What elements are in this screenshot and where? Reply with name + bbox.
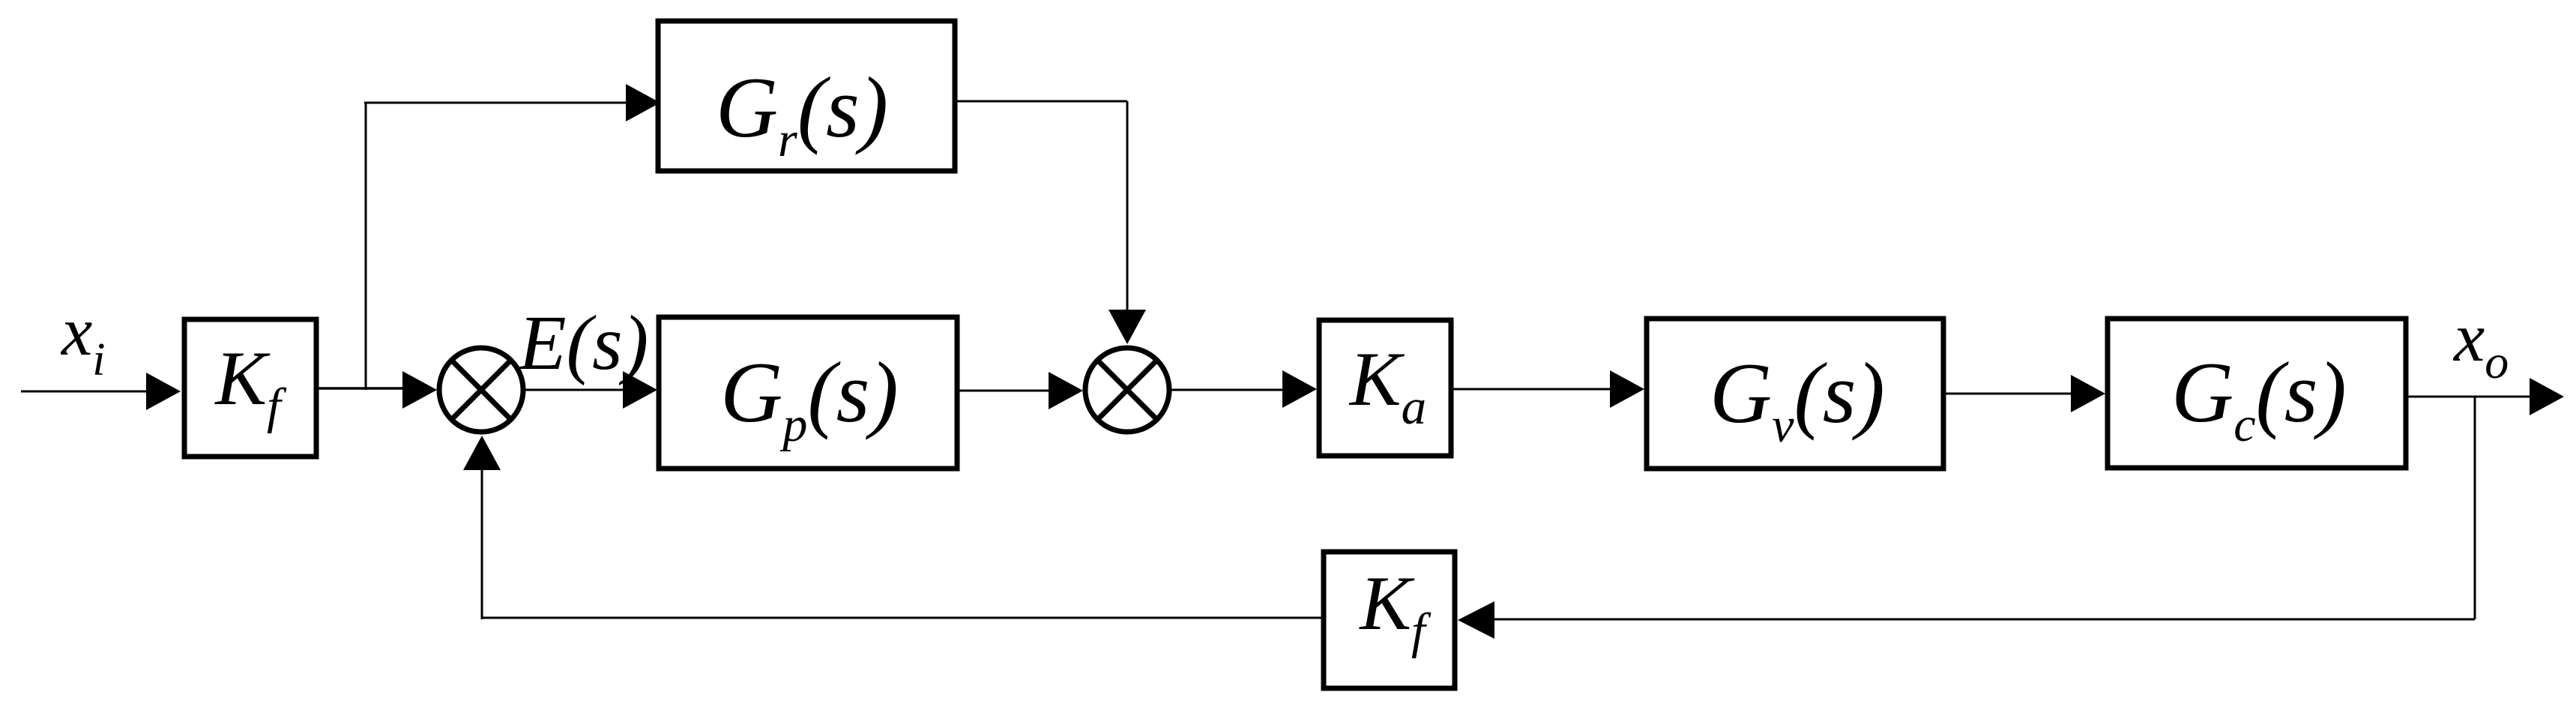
arrowhead into G_r	[626, 84, 660, 121]
arrowhead up into S1 bottom	[463, 436, 501, 470]
block G_r	[658, 21, 955, 171]
wire: K_f output to summing junction S1	[316, 387, 405, 390]
wire: G_v to G_c	[1943, 393, 2073, 395]
svg-text:Gv(s): Gv(s)	[1710, 346, 1885, 453]
block K_f (bottom)	[1324, 552, 1455, 688]
wire: S2 to K_a	[1169, 389, 1285, 391]
wire: branch vertical up to G_r	[365, 103, 367, 390]
wire: G_c output to x_o	[2406, 396, 2533, 398]
wire: S1 to G_p	[523, 389, 625, 391]
arrowhead into S2 from left	[1049, 372, 1083, 409]
arrowhead into G_p	[623, 371, 657, 409]
wire: input line x_i	[21, 391, 150, 393]
wire: feedback vertical down from output node	[2474, 397, 2476, 619]
arrowhead output x_o	[2530, 378, 2564, 415]
wire: bottom K_f output to left	[482, 617, 1324, 619]
arrowhead down into S2	[1108, 310, 1146, 344]
wire: feedback vertical up to S1	[481, 469, 483, 619]
arrowhead into S1 from left	[402, 371, 437, 409]
block K_a	[1319, 320, 1451, 456]
summing junction S1	[439, 348, 523, 432]
svg-text:Gr(s): Gr(s)	[716, 60, 888, 167]
svg-text:Gc(s): Gc(s)	[2171, 345, 2347, 452]
wire: K_a to G_v	[1451, 388, 1612, 391]
block G_c	[2108, 319, 2406, 468]
arrowhead into G_c	[2071, 375, 2105, 412]
wire: feedback horizontal to bottom K_f	[1493, 619, 2475, 621]
arrowhead into K_a	[1282, 370, 1317, 408]
wire: G_p to S2	[957, 390, 1051, 392]
svg-text:Gp(s): Gp(s)	[720, 345, 898, 452]
arrowhead into K_f (top-left)	[146, 373, 181, 410]
block G_p	[659, 317, 957, 469]
summing junction S2	[1085, 348, 1169, 432]
wire: branch horizontal to G_r	[364, 102, 630, 104]
arrowhead into bottom K_f	[1458, 601, 1494, 639]
block K_f (top-left)	[184, 319, 316, 457]
svg-text:E(s): E(s)	[517, 300, 648, 386]
arrowhead into G_v	[1610, 370, 1644, 408]
wire: G_r output horizontal	[955, 100, 1127, 103]
block G_v	[1647, 319, 1943, 469]
wire: G_r output vertical down to S2	[1126, 101, 1129, 311]
